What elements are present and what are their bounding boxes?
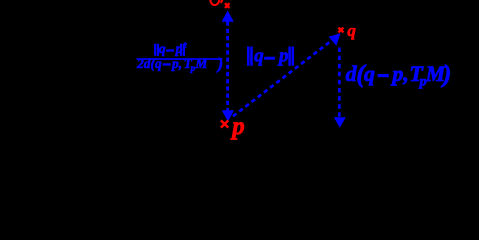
wire: diagonal dashed arrow p to q <box>233 33 341 116</box>
svg-text:p: p <box>230 113 245 140</box>
svg-text:p,: p, <box>390 61 409 86</box>
svg-text:): ) <box>441 61 451 88</box>
node q marker (red x) <box>338 28 343 33</box>
svg-text:M: M <box>194 56 208 71</box>
svg-text:p: p <box>277 45 289 66</box>
svg-text:2d(q: 2d(q <box>136 56 162 71</box>
wire: main vertical dashed double arrow (p up to c) <box>222 11 234 122</box>
svg-text:q: q <box>254 45 264 66</box>
wire: vertical dashed arrow from q down to tangent plane <box>334 48 346 128</box>
svg-text:q: q <box>364 61 375 86</box>
label fraction bar <box>137 58 223 60</box>
label fraction denominator 2d(q-p,TpM) <box>136 54 223 73</box>
svg-text:): ) <box>216 54 224 73</box>
label d(q - p, TpM) (distance q to tangent plane) <box>346 61 452 89</box>
svg-text:2: 2 <box>182 41 187 49</box>
svg-text:q: q <box>159 41 166 56</box>
label c (cut off at top, red arc glyph) <box>210 0 222 5</box>
svg-text:p,: p, <box>171 56 182 71</box>
node p marker (red x, bottom) <box>221 120 228 127</box>
label ||q - p|| (distance p to q) <box>247 45 293 66</box>
label fraction ||q-p||^2 / 2d(q-p,TpM) : numerator <box>154 41 187 56</box>
node c marker (red x, top) <box>225 3 229 8</box>
svg-text:q: q <box>347 21 356 40</box>
